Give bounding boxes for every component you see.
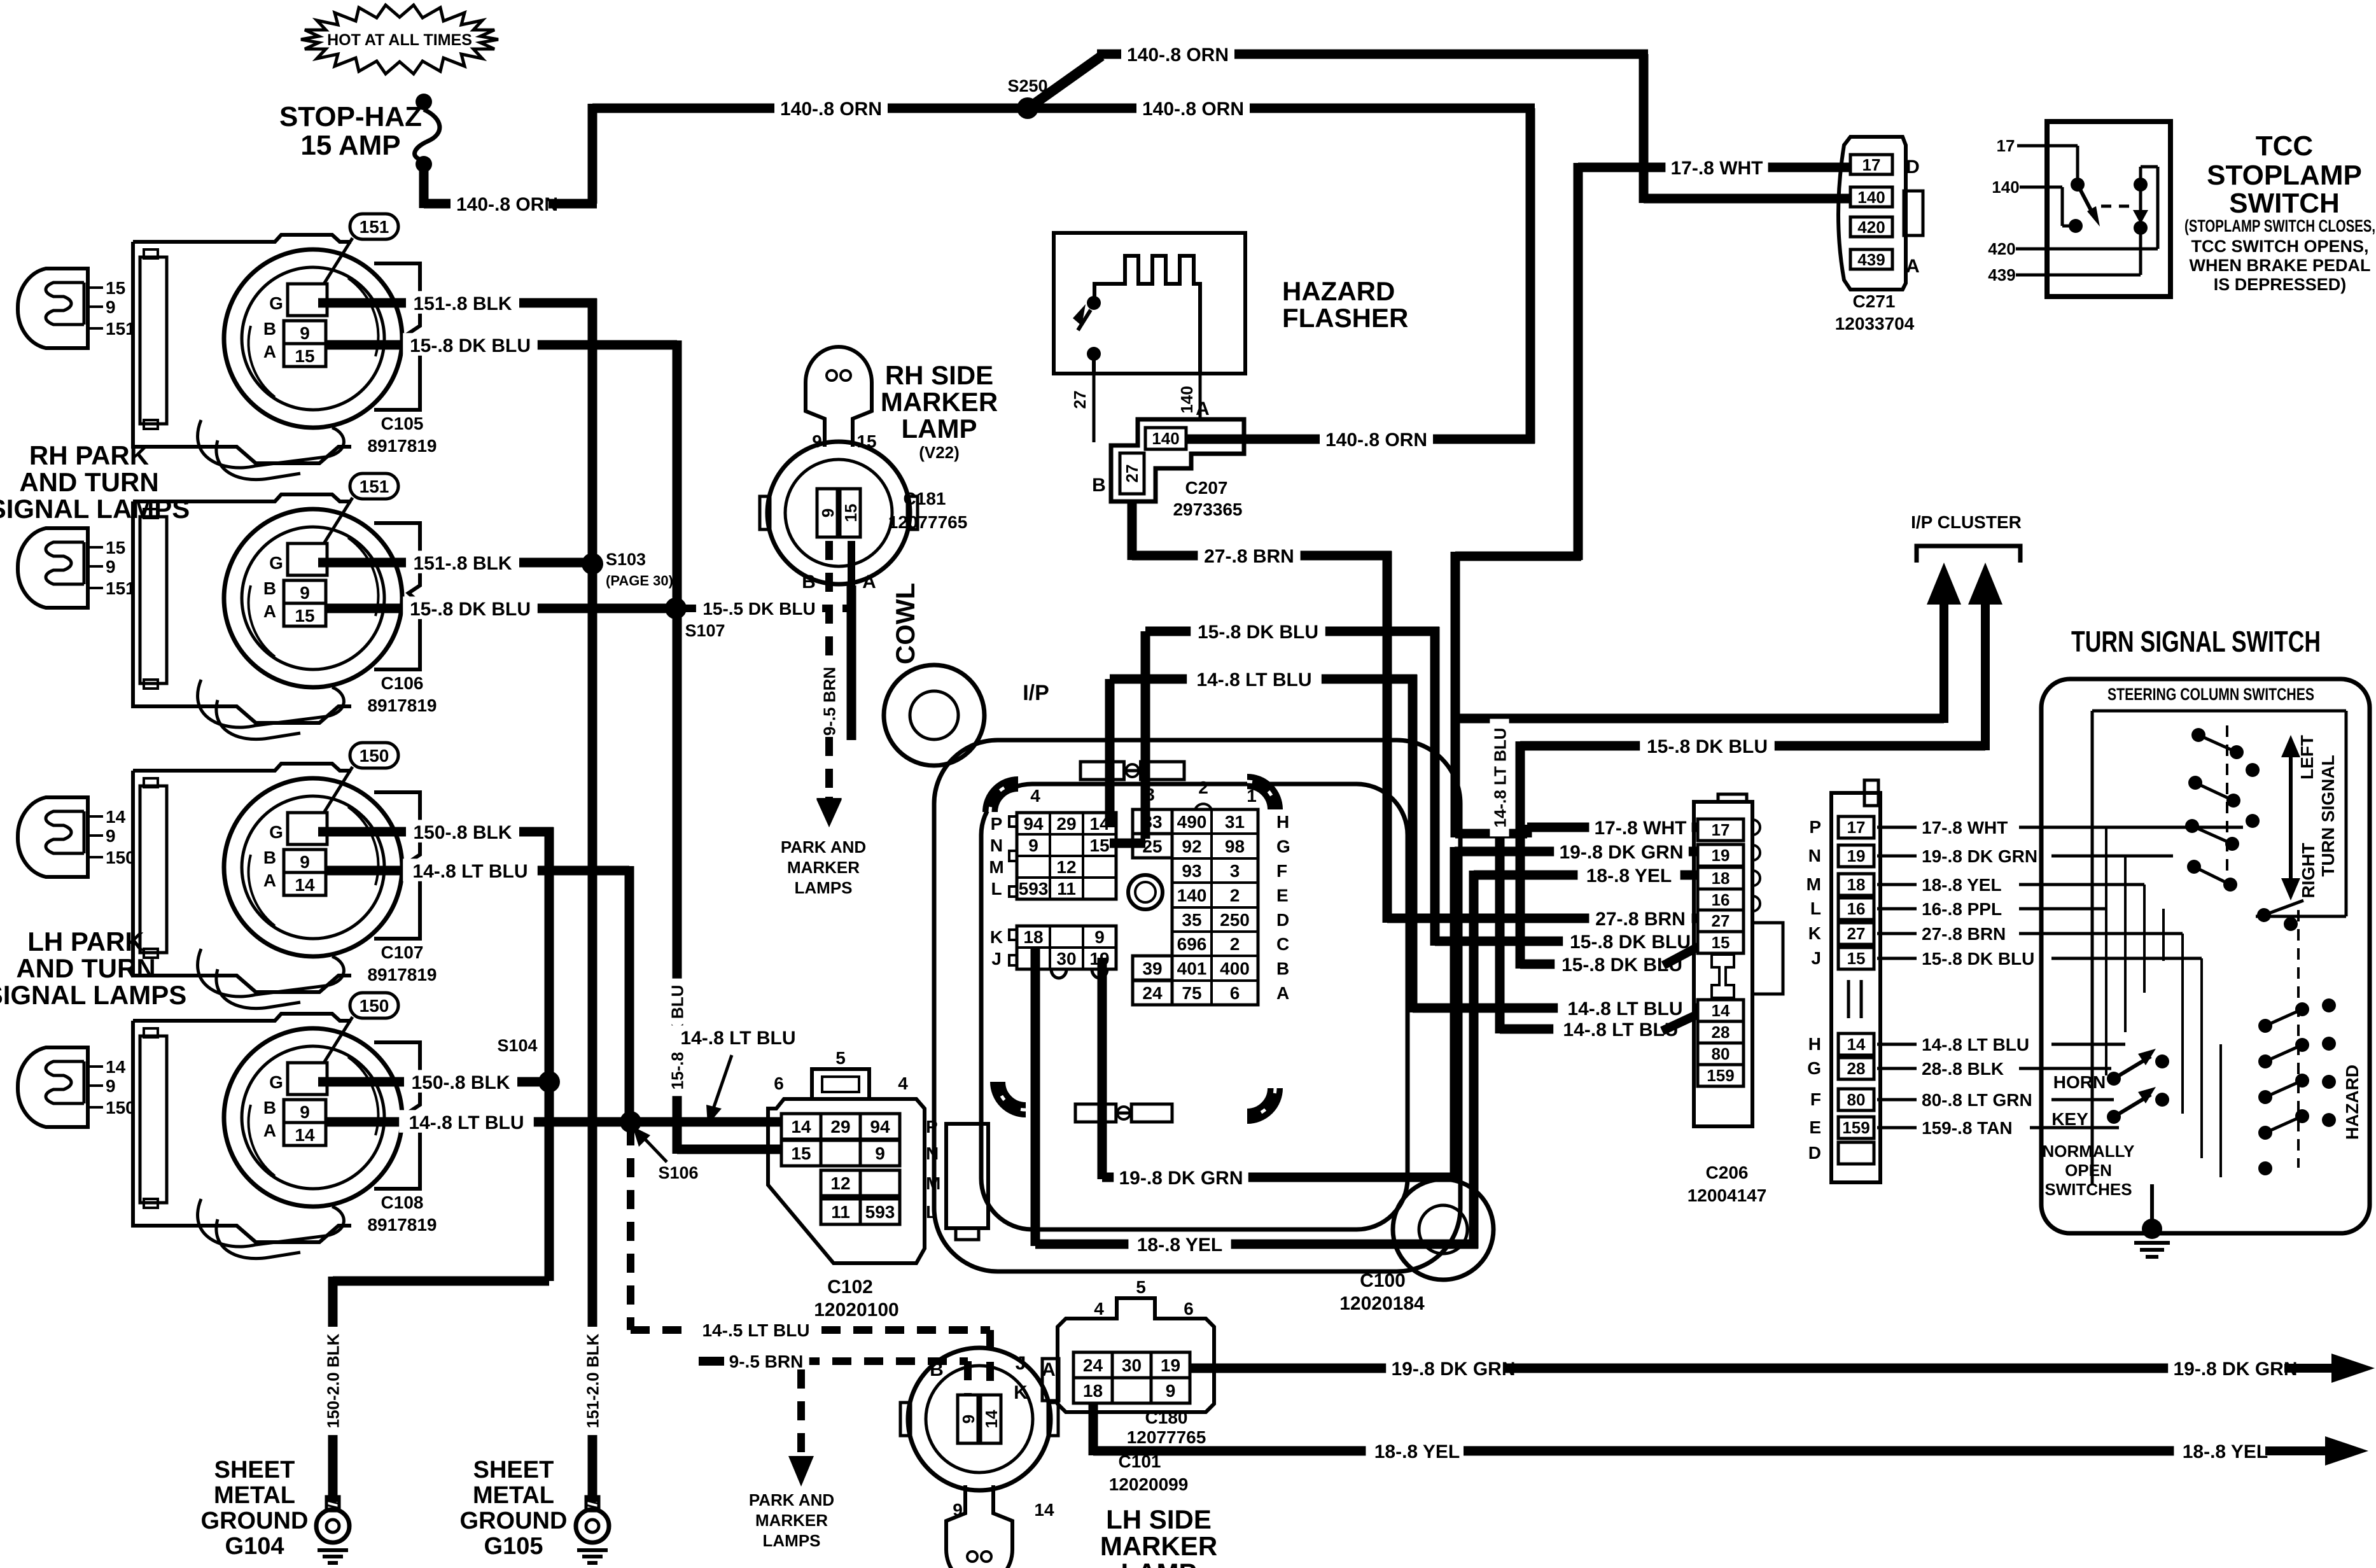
svg-text:151-.8 BLK: 151-.8 BLK <box>413 293 512 314</box>
svg-text:94: 94 <box>1023 814 1044 834</box>
svg-text:151-.8 BLK: 151-.8 BLK <box>413 553 512 574</box>
svg-text:150-.8 BLK: 150-.8 BLK <box>413 822 512 843</box>
svg-text:3: 3 <box>1230 861 1240 881</box>
svg-text:SHEET: SHEET <box>473 1457 554 1483</box>
svg-text:TCC SWITCH OPENS,: TCC SWITCH OPENS, <box>2191 237 2368 256</box>
svg-text:D: D <box>1906 157 1920 178</box>
svg-text:4: 4 <box>1094 1299 1104 1319</box>
svg-text:G: G <box>269 822 283 842</box>
svg-text:15: 15 <box>1847 949 1866 968</box>
svg-text:140-.8 ORN: 140-.8 ORN <box>1325 430 1427 451</box>
svg-text:19-.8 DK GRN: 19-.8 DK GRN <box>1391 1359 1515 1380</box>
svg-text:9-.5 BRN: 9-.5 BRN <box>729 1352 804 1371</box>
svg-text:159: 159 <box>1707 1066 1734 1085</box>
svg-text:HORN: HORN <box>2053 1072 2106 1092</box>
svg-text:A: A <box>862 571 876 592</box>
svg-text:SWITCH: SWITCH <box>2229 188 2340 219</box>
svg-text:G104: G104 <box>225 1533 284 1560</box>
svg-text:5: 5 <box>835 1048 846 1068</box>
svg-text:27: 27 <box>1122 465 1142 483</box>
svg-text:17: 17 <box>1847 818 1866 837</box>
svg-text:2: 2 <box>1230 934 1240 954</box>
svg-text:B: B <box>1092 475 1106 496</box>
svg-text:439: 439 <box>1857 250 1885 269</box>
svg-text:24: 24 <box>1083 1355 1103 1375</box>
svg-text:15-.8 DK BLU: 15-.8 DK BLU <box>1647 736 1768 757</box>
svg-text:A: A <box>1906 256 1920 277</box>
svg-text:9: 9 <box>959 1415 978 1424</box>
svg-text:8917819: 8917819 <box>367 1215 437 1235</box>
svg-text:SHEET: SHEET <box>214 1457 295 1483</box>
svg-text:11: 11 <box>1057 879 1076 899</box>
svg-text:COWL: COWL <box>890 583 920 664</box>
svg-text:LAMP: LAMP <box>902 414 977 444</box>
svg-text:A: A <box>1276 983 1289 1003</box>
svg-text:18: 18 <box>1023 927 1043 947</box>
svg-text:TCC: TCC <box>2256 130 2313 162</box>
svg-text:14-.8 LT BLU: 14-.8 LT BLU <box>1567 998 1682 1019</box>
svg-text:N: N <box>990 836 1003 855</box>
svg-text:17-.8 WHT: 17-.8 WHT <box>1670 158 1763 179</box>
svg-text:12077765: 12077765 <box>888 512 968 532</box>
svg-text:30: 30 <box>1122 1355 1142 1375</box>
svg-text:J: J <box>991 949 1002 969</box>
svg-text:14: 14 <box>791 1117 811 1137</box>
svg-text:MARKER: MARKER <box>1100 1531 1217 1561</box>
svg-text:B: B <box>263 319 276 339</box>
svg-text:TURN SIGNAL SWITCH: TURN SIGNAL SWITCH <box>2071 625 2321 658</box>
svg-text:250: 250 <box>1220 910 1250 930</box>
svg-text:19: 19 <box>1161 1355 1180 1375</box>
svg-text:9: 9 <box>106 297 116 317</box>
svg-text:9: 9 <box>106 557 116 577</box>
svg-text:9: 9 <box>812 431 822 451</box>
svg-text:9: 9 <box>300 583 310 603</box>
svg-text:FLASHER: FLASHER <box>1282 303 1408 333</box>
svg-text:14-.8 LT BLU: 14-.8 LT BLU <box>1490 728 1509 828</box>
svg-text:8917819: 8917819 <box>367 965 437 984</box>
svg-text:4: 4 <box>1030 786 1040 806</box>
svg-text:92: 92 <box>1182 837 1201 857</box>
svg-text:G: G <box>1276 837 1290 857</box>
svg-text:140: 140 <box>1992 178 2019 197</box>
svg-text:15: 15 <box>841 504 860 522</box>
svg-text:8917819: 8917819 <box>367 436 437 456</box>
svg-text:29: 29 <box>1056 814 1076 834</box>
svg-text:27-.8 BRN: 27-.8 BRN <box>1204 546 1294 567</box>
svg-text:9: 9 <box>1094 927 1105 947</box>
svg-text:C105: C105 <box>381 414 424 433</box>
svg-text:140-.8 ORN: 140-.8 ORN <box>1142 99 1244 120</box>
svg-text:80: 80 <box>1847 1090 1866 1109</box>
svg-text:15-.8 DK BLU: 15-.8 DK BLU <box>410 335 531 356</box>
svg-text:18: 18 <box>1847 875 1866 894</box>
svg-text:8917819: 8917819 <box>367 696 437 715</box>
svg-text:C271: C271 <box>1853 291 1896 311</box>
svg-text:A: A <box>263 601 276 621</box>
svg-text:K: K <box>1808 923 1821 943</box>
svg-text:150-2.0 BLK: 150-2.0 BLK <box>323 1333 342 1428</box>
svg-text:14: 14 <box>106 807 126 827</box>
svg-text:27-.8 BRN: 27-.8 BRN <box>1922 924 2006 944</box>
svg-text:439: 439 <box>1988 265 2015 284</box>
svg-text:AND TURN: AND TURN <box>19 467 158 497</box>
svg-text:STOPLAMP: STOPLAMP <box>2207 160 2362 191</box>
svg-text:14-.8 LT BLU: 14-.8 LT BLU <box>1196 669 1311 690</box>
svg-text:C106: C106 <box>381 673 424 693</box>
svg-text:14: 14 <box>106 1057 126 1077</box>
svg-text:9: 9 <box>818 508 837 517</box>
svg-text:G: G <box>1807 1058 1821 1078</box>
svg-text:12: 12 <box>830 1173 850 1193</box>
svg-text:B: B <box>263 1098 276 1117</box>
svg-text:17: 17 <box>1997 136 2015 155</box>
svg-text:17: 17 <box>1712 820 1730 839</box>
svg-text:15-.8 DK BLU: 15-.8 DK BLU <box>1922 949 2034 969</box>
svg-text:RIGHT: RIGHT <box>2298 843 2318 898</box>
svg-text:420: 420 <box>1988 239 2015 258</box>
svg-text:16-.8 PPL: 16-.8 PPL <box>1922 899 2002 919</box>
svg-text:15-.8 DK BLU: 15-.8 DK BLU <box>410 599 531 620</box>
svg-text:C: C <box>1276 934 1289 954</box>
svg-text:N: N <box>1808 846 1821 865</box>
svg-text:19: 19 <box>1712 846 1730 865</box>
svg-text:12: 12 <box>1056 857 1076 877</box>
svg-text:2: 2 <box>1230 885 1240 905</box>
svg-text:6: 6 <box>774 1074 784 1093</box>
svg-text:27: 27 <box>1070 391 1089 409</box>
svg-text:METAL: METAL <box>214 1482 295 1509</box>
svg-text:30: 30 <box>1056 949 1076 969</box>
svg-text:159: 159 <box>1842 1118 1869 1137</box>
svg-text:400: 400 <box>1220 959 1250 979</box>
svg-text:151: 151 <box>106 319 136 339</box>
svg-text:12004147: 12004147 <box>1688 1186 1767 1205</box>
svg-text:I/P CLUSTER: I/P CLUSTER <box>1911 512 2022 532</box>
svg-text:15: 15 <box>791 1144 811 1163</box>
svg-text:HOT AT ALL TIMES: HOT AT ALL TIMES <box>327 31 472 49</box>
svg-text:E: E <box>1809 1117 1821 1137</box>
svg-text:9: 9 <box>300 1102 310 1122</box>
svg-text:L: L <box>1810 899 1821 918</box>
svg-text:F: F <box>1810 1089 1821 1109</box>
svg-text:9-.5 BRN: 9-.5 BRN <box>820 667 839 736</box>
svg-text:C180: C180 <box>1145 1408 1188 1427</box>
svg-text:LAMPS: LAMPS <box>763 1531 821 1550</box>
svg-text:LAMP: LAMP <box>1121 1558 1197 1568</box>
svg-text:28-.8 BLK: 28-.8 BLK <box>1922 1059 2004 1079</box>
svg-text:27-.8 BRN: 27-.8 BRN <box>1595 909 1686 930</box>
svg-text:140: 140 <box>1857 188 1885 207</box>
svg-text:18-.8 YEL: 18-.8 YEL <box>1586 865 1672 886</box>
svg-text:98: 98 <box>1225 837 1245 857</box>
svg-text:G: G <box>269 553 283 573</box>
svg-text:K: K <box>990 927 1003 947</box>
svg-text:19-.8 DK GRN: 19-.8 DK GRN <box>1119 1168 1243 1189</box>
svg-text:LAMPS: LAMPS <box>795 878 853 897</box>
svg-text:2973365: 2973365 <box>1173 500 1242 519</box>
svg-text:14-.8 LT BLU: 14-.8 LT BLU <box>412 861 528 882</box>
svg-text:31: 31 <box>1225 812 1245 832</box>
svg-text:HAZARD: HAZARD <box>2342 1065 2362 1140</box>
svg-text:14-.8 LT BLU: 14-.8 LT BLU <box>409 1112 524 1133</box>
svg-text:L: L <box>926 1202 937 1222</box>
svg-text:NORMALLY: NORMALLY <box>2043 1142 2135 1161</box>
svg-text:GROUND: GROUND <box>201 1508 309 1534</box>
svg-text:150: 150 <box>360 746 389 766</box>
svg-text:15-.8 DK BLU: 15-.8 DK BLU <box>1198 622 1318 643</box>
svg-text:OPEN: OPEN <box>2065 1161 2112 1180</box>
svg-text:N: N <box>926 1144 939 1163</box>
svg-text:A: A <box>1196 398 1210 419</box>
svg-text:D: D <box>1808 1143 1821 1163</box>
svg-text:15-.5 DK BLU: 15-.5 DK BLU <box>702 599 815 619</box>
svg-text:C102: C102 <box>827 1277 873 1298</box>
svg-text:IS DEPRESSED): IS DEPRESSED) <box>2214 275 2347 294</box>
svg-text:1: 1 <box>1247 786 1257 806</box>
svg-text:11: 11 <box>831 1202 850 1222</box>
svg-text:P: P <box>991 814 1003 834</box>
svg-text:15: 15 <box>295 346 314 366</box>
svg-text:150: 150 <box>106 848 136 867</box>
svg-text:M: M <box>989 857 1003 877</box>
svg-text:J: J <box>1811 948 1821 968</box>
svg-text:MARKER: MARKER <box>755 1511 828 1530</box>
svg-text:140: 140 <box>1177 885 1207 905</box>
svg-text:14: 14 <box>1847 1035 1866 1054</box>
svg-text:C181: C181 <box>904 489 946 508</box>
svg-text:L: L <box>991 879 1002 899</box>
svg-text:12020184: 12020184 <box>1339 1293 1425 1314</box>
svg-text:39: 39 <box>1142 959 1162 979</box>
svg-text:STOP-HAZ: STOP-HAZ <box>279 101 422 132</box>
svg-text:9: 9 <box>1166 1381 1176 1401</box>
svg-text:HAZARD: HAZARD <box>1282 276 1395 306</box>
svg-text:SIGNAL LAMPS: SIGNAL LAMPS <box>0 494 190 524</box>
svg-text:75: 75 <box>1182 983 1201 1003</box>
svg-text:140-.8 ORN: 140-.8 ORN <box>1127 45 1229 66</box>
svg-text:B: B <box>802 571 816 592</box>
svg-text:G105: G105 <box>484 1533 543 1560</box>
svg-text:S104: S104 <box>497 1036 537 1055</box>
svg-text:KEY: KEY <box>2051 1109 2088 1129</box>
svg-text:I/P: I/P <box>1023 681 1049 705</box>
svg-text:14-.8 LT BLU: 14-.8 LT BLU <box>1922 1035 2029 1054</box>
svg-text:80: 80 <box>1712 1044 1730 1063</box>
svg-text:C206: C206 <box>1706 1163 1749 1182</box>
svg-text:15: 15 <box>295 606 314 626</box>
svg-text:H: H <box>1276 812 1289 832</box>
svg-text:140: 140 <box>1177 386 1196 413</box>
svg-text:RH PARK: RH PARK <box>29 440 149 470</box>
svg-text:19: 19 <box>1847 846 1866 865</box>
svg-text:6: 6 <box>1184 1299 1194 1319</box>
svg-text:S107: S107 <box>685 621 725 640</box>
svg-text:GROUND: GROUND <box>460 1508 568 1534</box>
svg-text:M: M <box>1806 874 1821 894</box>
svg-text:150-.8 BLK: 150-.8 BLK <box>411 1072 510 1093</box>
svg-text:C100: C100 <box>1360 1270 1406 1291</box>
svg-text:35: 35 <box>1182 910 1201 930</box>
svg-text:150: 150 <box>360 996 389 1016</box>
svg-text:19-.8 DK GRN: 19-.8 DK GRN <box>1922 846 2037 866</box>
svg-text:14-.8 LT BLU: 14-.8 LT BLU <box>1563 1019 1678 1040</box>
svg-text:RH SIDE: RH SIDE <box>885 360 993 390</box>
svg-text:25: 25 <box>1142 837 1162 857</box>
svg-text:140: 140 <box>1152 429 1179 448</box>
svg-text:696: 696 <box>1177 934 1207 954</box>
svg-text:140-.8 ORN: 140-.8 ORN <box>456 194 558 215</box>
svg-text:A: A <box>263 871 276 890</box>
svg-text:24: 24 <box>1142 983 1163 1003</box>
svg-text:420: 420 <box>1857 218 1885 237</box>
svg-text:9: 9 <box>875 1144 885 1163</box>
svg-text:14: 14 <box>982 1410 1001 1428</box>
svg-text:27: 27 <box>1712 911 1730 930</box>
svg-text:14: 14 <box>295 1125 315 1145</box>
svg-text:C207: C207 <box>1185 478 1228 498</box>
svg-text:P: P <box>926 1117 938 1137</box>
svg-text:METAL: METAL <box>473 1482 554 1509</box>
svg-text:PARK AND: PARK AND <box>749 1490 834 1509</box>
svg-text:27: 27 <box>1847 924 1866 943</box>
svg-text:5: 5 <box>1136 1277 1146 1297</box>
svg-text:9: 9 <box>953 1500 963 1520</box>
svg-text:6: 6 <box>1230 983 1240 1003</box>
svg-text:15: 15 <box>106 278 125 298</box>
svg-text:12077765: 12077765 <box>1127 1427 1206 1447</box>
svg-text:16: 16 <box>1847 899 1866 918</box>
svg-text:F: F <box>1276 861 1287 881</box>
svg-text:401: 401 <box>1177 959 1207 979</box>
svg-text:14: 14 <box>295 875 315 895</box>
svg-text:SIGNAL LAMPS: SIGNAL LAMPS <box>0 980 186 1010</box>
svg-text:17-.8 WHT: 17-.8 WHT <box>1922 818 2008 837</box>
svg-text:18-.8 YEL: 18-.8 YEL <box>1137 1235 1223 1256</box>
svg-text:A: A <box>1042 1359 1056 1380</box>
svg-text:151: 151 <box>360 217 389 237</box>
svg-text:140-.8 ORN: 140-.8 ORN <box>780 99 882 120</box>
svg-text:15: 15 <box>1089 836 1109 855</box>
svg-text:MARKER: MARKER <box>881 387 998 417</box>
svg-text:LH PARK: LH PARK <box>27 927 144 956</box>
svg-text:19-.8 DK GRN: 19-.8 DK GRN <box>2173 1359 2297 1380</box>
svg-text:28: 28 <box>1712 1023 1730 1042</box>
svg-text:2: 2 <box>1198 778 1208 797</box>
svg-text:29: 29 <box>830 1117 850 1137</box>
svg-text:19-.8 DK GRN: 19-.8 DK GRN <box>1559 842 1683 863</box>
svg-text:AND TURN: AND TURN <box>16 953 155 983</box>
svg-text:80-.8 LT GRN: 80-.8 LT GRN <box>1922 1090 2032 1110</box>
svg-text:WHEN BRAKE PEDAL: WHEN BRAKE PEDAL <box>2189 256 2370 275</box>
svg-text:4: 4 <box>898 1074 908 1093</box>
svg-text:18: 18 <box>1712 869 1730 888</box>
svg-text:B: B <box>263 578 276 598</box>
svg-text:94: 94 <box>870 1117 890 1137</box>
svg-text:G: G <box>269 1072 283 1092</box>
svg-text:H: H <box>1808 1034 1821 1054</box>
svg-text:159-.8 TAN: 159-.8 TAN <box>1922 1118 2013 1138</box>
svg-text:593: 593 <box>865 1202 895 1222</box>
svg-text:A: A <box>263 1121 276 1140</box>
svg-text:P: P <box>1809 817 1821 837</box>
svg-text:9: 9 <box>300 323 310 343</box>
svg-text:D: D <box>1276 910 1289 930</box>
svg-text:15: 15 <box>106 538 125 557</box>
svg-text:(PAGE 30): (PAGE 30) <box>606 573 673 589</box>
svg-text:593: 593 <box>1019 879 1049 899</box>
svg-text:LEFT: LEFT <box>2297 735 2317 780</box>
svg-text:12020100: 12020100 <box>814 1299 898 1320</box>
svg-text:B: B <box>1276 959 1289 979</box>
svg-text:MARKER: MARKER <box>787 858 860 877</box>
svg-text:9: 9 <box>106 826 116 846</box>
svg-text:18-.8 YEL: 18-.8 YEL <box>1374 1441 1460 1462</box>
svg-text:C107: C107 <box>381 942 424 962</box>
svg-text:(V22): (V22) <box>919 443 960 462</box>
svg-text:12033704: 12033704 <box>1835 314 1915 333</box>
svg-text:151-2.0 BLK: 151-2.0 BLK <box>583 1333 602 1428</box>
svg-text:G: G <box>269 293 283 313</box>
svg-text:14-.8 LT BLU: 14-.8 LT BLU <box>680 1028 795 1049</box>
svg-text:15: 15 <box>856 431 876 451</box>
svg-text:18-.8 YEL: 18-.8 YEL <box>2183 1441 2268 1462</box>
svg-text:S106: S106 <box>658 1163 698 1182</box>
svg-text:M: M <box>926 1173 940 1193</box>
svg-text:18: 18 <box>1083 1381 1103 1401</box>
svg-text:SWITCHES: SWITCHES <box>2044 1180 2132 1199</box>
svg-text:16: 16 <box>1712 890 1730 909</box>
svg-text:12020099: 12020099 <box>1109 1474 1189 1494</box>
svg-text:18-.8 YEL: 18-.8 YEL <box>1922 875 2002 895</box>
svg-text:C108: C108 <box>381 1193 424 1212</box>
svg-text:E: E <box>1276 885 1289 905</box>
svg-text:17: 17 <box>1862 155 1881 174</box>
svg-text:14-.5 LT BLU: 14-.5 LT BLU <box>702 1320 809 1340</box>
svg-text:STEERING COLUMN SWITCHES: STEERING COLUMN SWITCHES <box>2107 685 2314 704</box>
svg-text:14: 14 <box>1712 1001 1730 1020</box>
svg-text:TURN SIGNAL: TURN SIGNAL <box>2318 755 2338 876</box>
svg-text:(STOPLAMP SWITCH CLOSES,: (STOPLAMP SWITCH CLOSES, <box>2184 216 2375 235</box>
svg-text:LH SIDE: LH SIDE <box>1106 1504 1212 1534</box>
svg-text:490: 490 <box>1177 812 1207 832</box>
svg-text:9: 9 <box>106 1076 116 1096</box>
svg-text:9: 9 <box>300 852 310 872</box>
svg-text:28: 28 <box>1847 1059 1866 1078</box>
svg-text:PARK AND: PARK AND <box>781 837 866 857</box>
svg-text:9: 9 <box>1028 836 1038 855</box>
svg-text:150: 150 <box>106 1098 136 1117</box>
svg-text:15: 15 <box>1712 933 1730 952</box>
svg-text:B: B <box>263 848 276 867</box>
svg-text:14: 14 <box>1034 1500 1054 1520</box>
svg-text:15-.8 DK BLU: 15-.8 DK BLU <box>1570 932 1691 953</box>
svg-text:S103: S103 <box>606 550 646 569</box>
svg-text:17-.8 WHT: 17-.8 WHT <box>1594 818 1686 839</box>
svg-text:151: 151 <box>106 578 136 598</box>
svg-text:93: 93 <box>1182 861 1201 881</box>
svg-text:15 AMP: 15 AMP <box>300 130 400 161</box>
svg-text:A: A <box>263 342 276 361</box>
svg-text:151: 151 <box>360 477 389 496</box>
